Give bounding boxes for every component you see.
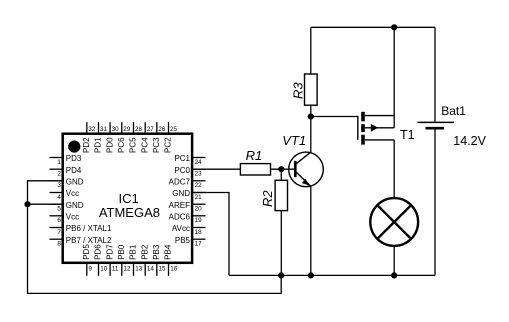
svg-text:23: 23 bbox=[195, 171, 203, 178]
svg-text:PB4: PB4 bbox=[164, 244, 173, 260]
svg-text:7: 7 bbox=[57, 229, 61, 236]
svg-text:29: 29 bbox=[123, 126, 131, 133]
transistor T1 (MOSFET) bbox=[358, 112, 415, 145]
wire R1 to base node bbox=[271, 168, 295, 170]
svg-text:IC1: IC1 bbox=[118, 191, 138, 206]
svg-text:PC2: PC2 bbox=[164, 137, 173, 153]
svg-text:27: 27 bbox=[147, 126, 155, 133]
svg-text:22: 22 bbox=[195, 182, 203, 189]
svg-text:1: 1 bbox=[57, 159, 61, 166]
svg-text:PD5: PD5 bbox=[82, 244, 91, 260]
IC1 top pin 29 (PC6) bbox=[117, 122, 131, 153]
IC1 pin-1 marker dot bbox=[68, 141, 80, 153]
junction dot pin5/pin3 GND bbox=[24, 201, 30, 207]
wire top rail bbox=[311, 26, 435, 28]
IC1 bottom pin 13 (PB1) bbox=[129, 244, 143, 276]
wire pin21 GND right and down to ground rail bbox=[192, 193, 229, 276]
svg-text:PC6: PC6 bbox=[117, 137, 126, 153]
svg-text:14: 14 bbox=[147, 266, 155, 273]
wire base node down to R2 bbox=[280, 169, 282, 180]
svg-text:30: 30 bbox=[112, 126, 120, 133]
IC1 top pin 30 (PD0) bbox=[105, 122, 119, 153]
svg-text:ATMEGA8: ATMEGA8 bbox=[99, 205, 160, 220]
svg-text:17: 17 bbox=[195, 241, 203, 248]
wire source down to lamp bbox=[393, 140, 395, 198]
IC1 right pin 23 (PC0) bbox=[174, 166, 205, 178]
svg-text:16: 16 bbox=[170, 266, 178, 273]
svg-text:PC3: PC3 bbox=[152, 137, 161, 153]
svg-text:PC0: PC0 bbox=[174, 166, 190, 175]
IC1 top pin 31 (PD1) bbox=[94, 122, 108, 153]
junction dot top rail / drain bbox=[391, 24, 397, 30]
svg-text:28: 28 bbox=[135, 126, 143, 133]
svg-text:R2: R2 bbox=[260, 190, 275, 207]
IC1 top pin 28 (PC5) bbox=[129, 122, 143, 153]
svg-text:25: 25 bbox=[170, 126, 178, 133]
svg-text:ADC6: ADC6 bbox=[169, 212, 191, 221]
svg-text:PC4: PC4 bbox=[140, 137, 149, 153]
resistor R3 bbox=[290, 74, 317, 105]
svg-text:8: 8 bbox=[57, 241, 61, 248]
svg-text:Vcc: Vcc bbox=[66, 212, 79, 221]
svg-text:19: 19 bbox=[195, 217, 203, 224]
IC1 right pin 22 (ADC7) bbox=[169, 177, 206, 189]
svg-text:13: 13 bbox=[135, 266, 143, 273]
IC1 left pin 4 (Vcc) bbox=[50, 189, 80, 201]
wire R3 node up through R3 to top rail bbox=[310, 105, 312, 116]
svg-text:R3: R3 bbox=[290, 82, 305, 99]
svg-text:9: 9 bbox=[89, 266, 93, 273]
svg-text:PD3: PD3 bbox=[66, 154, 82, 163]
wire battery negative down to ground rail bbox=[434, 128, 436, 275]
svg-text:T1: T1 bbox=[400, 128, 415, 142]
IC1 bottom pin 10 (PD6) bbox=[94, 244, 108, 276]
svg-text:PC5: PC5 bbox=[129, 137, 138, 153]
svg-text:2: 2 bbox=[57, 171, 61, 178]
IC1 bottom pin 9 (PD5) bbox=[82, 244, 93, 276]
svg-text:PD2: PD2 bbox=[82, 137, 91, 153]
junction dot base node bbox=[278, 166, 284, 172]
battery Bat1 bbox=[418, 104, 487, 148]
svg-text:Vcc: Vcc bbox=[66, 189, 79, 198]
IC1 left pin 1 (PD3) bbox=[50, 154, 82, 166]
IC1 left pin 8 (PB7 / XTAL2) bbox=[50, 236, 113, 248]
svg-text:PD0: PD0 bbox=[105, 137, 114, 153]
svg-text:GND: GND bbox=[66, 177, 84, 186]
wire emitter down to ground rail bbox=[310, 186, 312, 275]
wire collector up to R3 node bbox=[310, 117, 312, 153]
wire battery positive to top rail bbox=[434, 27, 436, 122]
svg-text:AVcc: AVcc bbox=[172, 224, 190, 233]
IC1 top pin 32 (PD2) bbox=[82, 122, 96, 153]
svg-text:10: 10 bbox=[100, 266, 108, 273]
svg-text:ADC7: ADC7 bbox=[169, 177, 191, 186]
svg-text:R1: R1 bbox=[246, 148, 263, 163]
wire R2 bottom to ground rail bbox=[280, 211, 282, 276]
lamp HL1 bbox=[370, 198, 418, 246]
wire lamp bottom to ground rail bbox=[393, 246, 395, 276]
IC1 top pin 25 (PC2) bbox=[164, 122, 178, 153]
wire pin23 PC0 to R1 bbox=[192, 168, 240, 170]
svg-text:14.2V: 14.2V bbox=[453, 134, 486, 148]
svg-text:PC1: PC1 bbox=[174, 154, 190, 163]
svg-text:AREF: AREF bbox=[169, 201, 190, 210]
junction dot collector/R3/gate node bbox=[308, 113, 314, 119]
svg-text:20: 20 bbox=[195, 206, 203, 213]
svg-text:12: 12 bbox=[124, 266, 132, 273]
svg-text:26: 26 bbox=[158, 126, 166, 133]
wire GND net: pin3 left, down, along bottom, up to ground rail bbox=[28, 181, 282, 294]
resistor R1 bbox=[240, 148, 270, 175]
wire pin5 GND to vertical bbox=[28, 203, 64, 205]
svg-text:5: 5 bbox=[57, 206, 61, 213]
IC1 bottom pin 14 (PB2) bbox=[140, 244, 154, 276]
svg-text:PB2: PB2 bbox=[140, 244, 149, 260]
svg-text:18: 18 bbox=[195, 229, 203, 236]
svg-text:PB0: PB0 bbox=[117, 244, 126, 260]
svg-text:PB5: PB5 bbox=[175, 236, 191, 245]
svg-text:PB6 / XTAL1: PB6 / XTAL1 bbox=[66, 224, 112, 233]
svg-text:31: 31 bbox=[100, 126, 108, 133]
IC1 left pin 5 (GND) bbox=[50, 201, 84, 213]
svg-text:Bat1: Bat1 bbox=[441, 104, 466, 118]
svg-text:6: 6 bbox=[57, 217, 61, 224]
svg-text:PB3: PB3 bbox=[152, 244, 161, 260]
wire drain vertical from top rail bbox=[393, 27, 395, 128]
junction dot lamp/ground rail bbox=[391, 272, 397, 278]
svg-text:11: 11 bbox=[112, 266, 119, 273]
IC1 left pin 6 (Vcc) bbox=[50, 212, 80, 224]
IC1 left pin 3 (GND) bbox=[50, 177, 84, 189]
IC1 right pin 20 (AREF) bbox=[169, 201, 206, 213]
IC1 bottom pin 11 (PD7) bbox=[105, 244, 119, 276]
svg-text:21: 21 bbox=[195, 194, 203, 201]
IC1 top pin 27 (PC4) bbox=[140, 122, 154, 153]
IC1 right pin 17 (PB5) bbox=[175, 236, 206, 248]
junction dot R2/ground rail bbox=[278, 272, 284, 278]
svg-text:PD4: PD4 bbox=[66, 166, 82, 175]
IC1 bottom pin 16 (PB4) bbox=[164, 244, 178, 276]
junction dot emitter/ground rail bbox=[308, 272, 314, 278]
IC U1 body (IC1 ATMEGA8) bbox=[63, 134, 192, 263]
wire ground rail bottom bbox=[229, 274, 435, 276]
IC1 right pin 24 (PC1) bbox=[174, 154, 205, 166]
resistor R2 bbox=[260, 180, 287, 210]
IC1 right pin 21 (GND) bbox=[172, 189, 205, 201]
svg-text:VT1: VT1 bbox=[282, 133, 306, 148]
svg-text:PD1: PD1 bbox=[94, 137, 103, 153]
svg-text:3: 3 bbox=[57, 182, 61, 189]
IC1 bottom pin 12 (PB0) bbox=[117, 244, 131, 276]
svg-text:PB1: PB1 bbox=[129, 244, 138, 260]
IC1 top pin 26 (PC3) bbox=[152, 122, 166, 153]
svg-text:GND: GND bbox=[66, 201, 84, 210]
transistor VT1 (NPN) bbox=[282, 133, 323, 187]
svg-text:PD7: PD7 bbox=[105, 244, 114, 260]
svg-text:24: 24 bbox=[195, 159, 203, 166]
svg-text:GND: GND bbox=[172, 189, 190, 198]
svg-text:4: 4 bbox=[57, 194, 61, 201]
svg-text:15: 15 bbox=[159, 266, 167, 273]
IC1 left pin 2 (PD4) bbox=[50, 166, 82, 178]
svg-text:PB7 / XTAL2: PB7 / XTAL2 bbox=[66, 236, 112, 245]
svg-text:PD6: PD6 bbox=[94, 244, 103, 260]
wire gate node to MOSFET gate bbox=[311, 116, 358, 118]
svg-text:32: 32 bbox=[88, 126, 96, 133]
IC1 right pin 19 (ADC6) bbox=[169, 212, 206, 224]
IC1 bottom pin 15 (PB3) bbox=[152, 244, 166, 276]
IC1 left pin 7 (PB6 / XTAL1) bbox=[50, 224, 113, 236]
IC1 right pin 18 (AVcc) bbox=[172, 224, 206, 236]
